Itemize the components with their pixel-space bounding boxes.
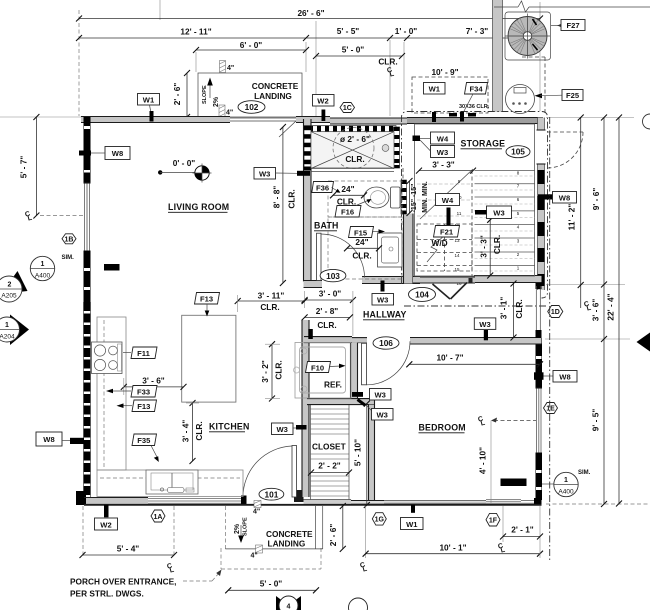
label W3 kitchen east xyxy=(272,423,307,435)
kitchen east wall xyxy=(302,320,309,497)
storage east door opening xyxy=(537,130,546,164)
extension line x160 top stub xyxy=(159,0,161,20)
svg-text:3' - 1": 3' - 1" xyxy=(499,297,509,320)
shower pan xyxy=(311,128,394,169)
left wall window xyxy=(84,183,91,251)
label W3 stairs right xyxy=(475,206,512,219)
svg-text:F27: F27 xyxy=(566,21,579,30)
svg-text:11' - 2": 11' - 2" xyxy=(567,204,577,231)
svg-text:1: 1 xyxy=(41,261,45,268)
rated line horizontal hallway xyxy=(404,305,546,307)
grid hex 1E xyxy=(544,403,558,414)
label F16 xyxy=(335,199,372,217)
stair break zigzag xyxy=(427,236,444,262)
door 102 leaf ajar xyxy=(279,121,296,137)
svg-text:4": 4" xyxy=(251,553,258,560)
svg-text:LANDING: LANDING xyxy=(254,91,292,101)
CL bottom center xyxy=(359,562,368,574)
4" hatch bottom landing lower xyxy=(251,545,263,560)
svg-text:106: 106 xyxy=(379,338,393,348)
dim 22'-4" xyxy=(606,115,623,507)
svg-text:0' - 0": 0' - 0" xyxy=(173,158,196,168)
svg-text:F11: F11 xyxy=(137,349,150,358)
storage east wall xyxy=(538,118,545,291)
bath clearance dashed boxes xyxy=(328,181,402,279)
section marker 1/A400 right xyxy=(542,470,591,497)
extension line x306 short xyxy=(305,42,307,72)
toilet xyxy=(364,187,400,208)
label W4 storage xyxy=(420,132,455,144)
stair riser dashed overlay xyxy=(475,176,536,271)
WD appliances dashed xyxy=(417,224,472,271)
sink cabinet xyxy=(146,470,198,494)
svg-text:SLOPE: SLOPE xyxy=(243,517,249,536)
svg-text:-15" -15": -15" -15" xyxy=(411,184,418,213)
svg-text:CLR.: CLR. xyxy=(194,421,204,440)
closet shelves xyxy=(311,409,350,496)
dim 2'-8" CLR hallway xyxy=(302,306,353,330)
svg-text:3' - 4": 3' - 4" xyxy=(181,420,191,443)
svg-text:LANDING: LANDING xyxy=(268,539,306,549)
label W3 storage xyxy=(413,136,455,158)
closet north wall xyxy=(307,399,375,405)
winder treads 9-11 dashed xyxy=(417,184,472,216)
svg-text:W1: W1 xyxy=(406,520,418,529)
right dashed y504 xyxy=(546,503,650,505)
label W3 bath left xyxy=(254,168,310,180)
bedroom south window xyxy=(486,500,521,504)
right ext line y339 xyxy=(545,338,630,340)
svg-text:2' - 1": 2' - 1" xyxy=(511,525,534,535)
svg-text:F10: F10 xyxy=(311,364,324,373)
svg-text:2' - 8": 2' - 8" xyxy=(316,306,339,316)
svg-text:3' - 3": 3' - 3" xyxy=(479,235,489,258)
svg-text:REF.: REF. xyxy=(324,380,342,390)
svg-text:CLOSET: CLOSET xyxy=(312,442,346,452)
extension line x390 xyxy=(389,40,391,116)
right ext line y117.5 xyxy=(546,117,634,119)
svg-text:F21: F21 xyxy=(440,228,454,237)
svg-text:F36: F36 xyxy=(316,184,329,193)
porch leader dashed xyxy=(183,570,222,582)
svg-text:1B: 1B xyxy=(65,236,74,243)
svg-text:W2: W2 xyxy=(317,97,328,106)
bottom wall thin segment 384-486 xyxy=(384,501,486,505)
CL 2'-1" xyxy=(497,543,506,555)
label F13 island xyxy=(195,293,220,317)
svg-text:W8: W8 xyxy=(43,435,54,444)
svg-text:CLR.: CLR. xyxy=(317,320,336,330)
bottom wall window kitchen xyxy=(148,498,241,505)
svg-text:W4: W4 xyxy=(437,135,449,144)
svg-text:W3: W3 xyxy=(437,148,448,157)
bottom wall post at 241 xyxy=(241,496,247,506)
top wall right of 102 xyxy=(296,117,330,123)
dim 24" CLR toilet xyxy=(330,184,367,207)
black tick near hallway west xyxy=(308,329,313,339)
slope arrow bottom xyxy=(234,517,249,543)
svg-text:6' - 0": 6' - 0" xyxy=(240,40,263,50)
svg-text:A204: A204 xyxy=(0,334,15,341)
dashed leader left xyxy=(40,215,83,217)
datum 0'-0" xyxy=(158,158,212,183)
dim 11'-2" xyxy=(567,115,584,309)
dim 24" CLR vanity xyxy=(344,237,382,261)
dim 4'-10" bedroom vertical xyxy=(478,418,537,505)
svg-text:A400: A400 xyxy=(35,273,51,280)
svg-text:CLR.: CLR. xyxy=(352,251,371,261)
svg-text:CLR.: CLR. xyxy=(378,57,397,67)
svg-text:W4: W4 xyxy=(442,196,454,205)
closet side lines xyxy=(310,405,312,500)
svg-text:HALLWAY: HALLWAY xyxy=(363,310,407,320)
svg-text:W1: W1 xyxy=(429,85,441,94)
bottom wall under closet xyxy=(304,500,352,505)
svg-text:W8: W8 xyxy=(559,373,570,382)
label W4 winder xyxy=(436,194,460,219)
shower north wall checkered xyxy=(309,126,396,132)
label W8 left wall xyxy=(36,432,84,446)
dim 26'-6" line xyxy=(79,18,540,20)
svg-text:2' - 6": 2' - 6" xyxy=(172,83,182,106)
dash-dot grid 1D vertical xyxy=(549,117,551,560)
svg-text:3' - 11": 3' - 11" xyxy=(258,291,285,301)
svg-text:W3: W3 xyxy=(377,296,388,305)
bottom wall corner post right xyxy=(534,498,542,506)
left counter xyxy=(97,317,126,470)
grid hex 1F xyxy=(486,513,500,526)
label W1 storage top xyxy=(424,83,446,123)
door 101 jamb post xyxy=(294,490,304,502)
elevation arrow right edge xyxy=(637,333,650,352)
dim 3'-1" CLR hallway vertical xyxy=(499,281,525,341)
label W8 upper left xyxy=(79,147,130,160)
svg-text:STORAGE: STORAGE xyxy=(461,139,506,149)
header bar living room xyxy=(104,264,120,271)
svg-text:22' - 4": 22' - 4" xyxy=(606,293,616,320)
svg-text:BATH: BATH xyxy=(314,221,339,231)
CL right xyxy=(583,301,592,313)
dim 3'-6" kitchen xyxy=(121,376,187,396)
svg-text:102: 102 xyxy=(245,102,259,112)
svg-text:F33: F33 xyxy=(137,388,150,397)
dim 5'-10" closet vertical xyxy=(353,401,370,508)
bottom wall window segment 351-384 xyxy=(351,501,384,505)
svg-text:SIM.: SIM. xyxy=(62,255,75,261)
door 103 swing xyxy=(321,234,365,278)
svg-text:W3: W3 xyxy=(259,170,270,179)
svg-text:CLR.: CLR. xyxy=(260,302,279,312)
label W1 bottom xyxy=(401,505,424,530)
svg-text:1F: 1F xyxy=(489,518,498,525)
svg-text:8' - 8": 8' - 8" xyxy=(272,186,282,209)
bottom exterior wall: corner post xyxy=(76,491,86,505)
dashed wall line x402 shower to toilet xyxy=(402,168,404,180)
svg-text:F13: F13 xyxy=(137,402,150,411)
shower east wall checkered xyxy=(394,127,400,168)
water heater F25 xyxy=(506,85,535,114)
bottom wall heavy lower edge xyxy=(84,504,542,506)
svg-text:1A: 1A xyxy=(154,514,163,521)
svg-text:W8: W8 xyxy=(559,194,570,203)
WD closet south wall xyxy=(413,277,475,283)
svg-text:1: 1 xyxy=(5,322,9,329)
extension line x316 xyxy=(315,21,317,116)
slope arrow top landing xyxy=(209,84,211,98)
bath/WD wall hatched xyxy=(401,180,407,214)
svg-text:24": 24" xyxy=(355,237,368,247)
upper cab dashed left xyxy=(103,320,105,468)
svg-text:4": 4" xyxy=(226,110,233,117)
svg-text:30X36 CLR.: 30X36 CLR. xyxy=(459,104,490,110)
oval 101 xyxy=(259,488,284,500)
svg-text:W3: W3 xyxy=(375,391,386,400)
svg-text:CONCRETE: CONCRETE xyxy=(252,81,299,91)
svg-text:1: 1 xyxy=(564,477,568,484)
extension line x196 short xyxy=(195,52,197,72)
bedroom east wall xyxy=(536,338,543,388)
stair up diagonal xyxy=(420,169,473,219)
svg-text:24": 24" xyxy=(341,184,354,194)
oval 104 xyxy=(409,287,436,301)
dim 3'-3" storage xyxy=(416,160,476,174)
bath north wall xyxy=(330,118,407,124)
svg-text:5' - 4": 5' - 4" xyxy=(117,544,140,554)
label F33 xyxy=(106,386,157,398)
svg-text:W3: W3 xyxy=(277,425,288,434)
room tag 102 xyxy=(238,101,265,114)
stair enclosure rated line (dash-dot rounded) xyxy=(402,112,548,299)
label W2 bottom xyxy=(95,505,118,530)
bath south wall left piece xyxy=(304,281,323,288)
dim 10'-1" xyxy=(363,543,543,557)
shower west wall checkered xyxy=(304,126,311,170)
svg-text:103: 103 xyxy=(326,271,340,281)
svg-text:F34: F34 xyxy=(469,85,483,94)
refrigerator xyxy=(294,343,352,399)
shower curb xyxy=(311,168,394,172)
dim 15" 15" MIN MIN xyxy=(407,178,430,216)
bottom counter xyxy=(97,470,243,497)
label W2 top xyxy=(313,95,335,122)
svg-text:PORCH OVER ENTRANCE,: PORCH OVER ENTRANCE, xyxy=(70,577,177,587)
label F36 xyxy=(312,182,341,193)
svg-text:4: 4 xyxy=(287,604,291,610)
svg-text:12' - 11": 12' - 11" xyxy=(180,27,211,37)
bath south wall right piece xyxy=(362,277,420,284)
chase wall band top right xyxy=(493,0,503,112)
section marker 2/A205 xyxy=(0,271,28,302)
svg-text:CLR.: CLR. xyxy=(345,154,364,164)
svg-text:5' - 5": 5' - 5" xyxy=(337,26,360,36)
label W8 right bottom xyxy=(534,371,577,383)
4" curb hatch top xyxy=(220,61,235,73)
top exterior wall left segment xyxy=(81,117,230,123)
svg-text:CLR.: CLR. xyxy=(287,189,297,208)
svg-text:W3: W3 xyxy=(493,209,504,218)
east wall segment at hallway xyxy=(536,283,542,338)
svg-text:26' - 6": 26' - 6" xyxy=(297,8,324,18)
svg-text:ø 2' - 6": ø 2' - 6" xyxy=(340,134,370,144)
svg-text:104: 104 xyxy=(415,290,429,300)
svg-text:4": 4" xyxy=(227,65,234,72)
dim 3'-0" hallway xyxy=(302,289,356,337)
svg-text:1G: 1G xyxy=(375,517,385,524)
label W3 fridge wall xyxy=(352,389,391,401)
living/bath wall xyxy=(304,119,312,282)
dim 8'-8" CLR vertical xyxy=(272,124,297,286)
marker circle bottom cut xyxy=(349,598,368,610)
marker diamond 4 bottom xyxy=(276,596,301,610)
concrete landing top outline xyxy=(198,73,302,117)
svg-text:5' - 7": 5' - 7" xyxy=(19,156,29,179)
svg-text:F25: F25 xyxy=(566,91,580,100)
dim 5'-7" xyxy=(19,114,40,219)
svg-text:CLR.: CLR. xyxy=(274,360,284,379)
svg-text:KITCHEN: KITCHEN xyxy=(209,422,250,432)
svg-text:SLOPE: SLOPE xyxy=(202,85,208,104)
4" hatch bottom landing upper xyxy=(253,501,261,516)
label F11 xyxy=(123,347,157,359)
label F27 xyxy=(557,23,564,28)
right ext line y284.5 xyxy=(546,284,625,286)
svg-text:CLR.: CLR. xyxy=(337,197,356,207)
svg-text:PER STRL. DWGS.: PER STRL. DWGS. xyxy=(70,589,144,599)
bedroom east window xyxy=(536,388,543,453)
bedroom east wall lower xyxy=(536,453,543,500)
svg-text:5' - 0": 5' - 0" xyxy=(260,579,283,589)
small black dashes top wall xyxy=(449,113,457,117)
svg-text:10' - 9": 10' - 9" xyxy=(431,67,458,77)
extension line x404 xyxy=(403,42,405,110)
label W3 hallway 104 xyxy=(474,318,496,340)
label W1 top xyxy=(138,94,160,122)
door 106 swing xyxy=(367,341,411,385)
svg-text:W1: W1 xyxy=(143,96,155,105)
bedroom north wall xyxy=(410,338,542,345)
door 101 leaf xyxy=(292,446,297,498)
jamb at 104 xyxy=(469,278,473,283)
tread numbers 1-8 xyxy=(517,171,520,271)
WD west wall xyxy=(404,214,414,284)
property line y7 with break xyxy=(494,6,518,8)
svg-text:W/D: W/D xyxy=(432,238,448,248)
section marker 1/A204 xyxy=(0,315,29,346)
left exterior wall upper xyxy=(84,117,91,183)
door 106 leaf xyxy=(362,343,367,385)
condenser pad F27 xyxy=(505,12,551,60)
header bar bedroom xyxy=(501,479,527,487)
extension line x540 top xyxy=(539,2,541,111)
dashed v x83 xyxy=(82,506,84,556)
stair south wall xyxy=(474,276,542,283)
dim 3'-2" CLR fridge xyxy=(260,341,284,401)
svg-text:F15: F15 xyxy=(354,229,368,238)
bedroom west wall xyxy=(369,399,375,500)
label F15 xyxy=(349,227,386,238)
label W3 hallway top xyxy=(372,281,394,306)
dim 2'-6" vertical at landing xyxy=(186,73,188,117)
oval 105 xyxy=(506,146,530,158)
grid line left horizontal xyxy=(0,116,83,118)
svg-text:F16: F16 xyxy=(341,208,354,217)
upper cab dashed bottom xyxy=(100,477,240,479)
dim 5'-4" xyxy=(80,544,178,559)
svg-text:W8: W8 xyxy=(112,149,123,158)
dashed v x174 xyxy=(173,506,175,556)
svg-text:14: 14 xyxy=(454,253,460,258)
svg-text:F35: F35 xyxy=(137,436,151,445)
svg-text:3' - 6": 3' - 6" xyxy=(591,299,601,322)
grid dashed vertical at x79 top xyxy=(78,10,80,116)
oval 103 xyxy=(320,269,346,281)
svg-text:LIVING ROOM: LIVING ROOM xyxy=(168,202,229,212)
section marker 1/A400 left xyxy=(30,255,74,281)
storage interior outline xyxy=(415,124,535,276)
svg-text:1C: 1C xyxy=(343,105,352,112)
svg-text:W3: W3 xyxy=(377,411,388,420)
label F25 xyxy=(535,93,543,98)
svg-text:MIN. MIN.: MIN. MIN. xyxy=(422,181,429,213)
bottom wall thin segment 521-534 xyxy=(521,501,534,504)
svg-text:1' - 0": 1' - 0" xyxy=(395,26,418,36)
svg-text:4": 4" xyxy=(253,509,260,516)
grid hex 1A xyxy=(151,510,165,522)
oval 106 xyxy=(373,337,399,349)
svg-text:A205: A205 xyxy=(1,293,17,300)
4" curb hatch bottom xyxy=(219,105,233,117)
svg-text:A400: A400 xyxy=(558,489,574,496)
svg-text:105: 105 xyxy=(511,147,525,157)
svg-text:3' - 2": 3' - 2" xyxy=(260,360,270,383)
grid hex 1D xyxy=(548,306,563,318)
svg-text:10' - 7": 10' - 7" xyxy=(436,353,463,363)
island xyxy=(182,315,236,402)
bottom wall gray segment xyxy=(84,498,148,505)
dim 3'-11" CLR kitchen xyxy=(235,291,308,313)
dim 6'-0" xyxy=(196,49,306,51)
door 101 swing xyxy=(243,446,292,497)
label W8 right top xyxy=(538,192,577,204)
CL bedroom xyxy=(477,416,486,428)
dim 9'-6" / 3'-6" / 9'-5" chain xyxy=(591,115,608,508)
svg-text:4' - 10": 4' - 10" xyxy=(478,447,488,474)
dim 12'-11" / 5'-5" / 1'-0" / 7'-3" line xyxy=(79,37,540,39)
CL left xyxy=(24,211,33,223)
dim 3'-4" CLR kitchen vertical xyxy=(181,400,205,464)
door 103 leaf xyxy=(317,233,322,280)
svg-text:2: 2 xyxy=(8,282,12,289)
dim 5'-0" CLR xyxy=(316,55,402,57)
door 104 double V xyxy=(433,283,468,300)
dim 10'-7" bedroom xyxy=(406,353,543,368)
svg-text:W3: W3 xyxy=(479,320,490,329)
winder numbers xyxy=(454,179,462,286)
label F13 lower xyxy=(117,400,157,412)
dim 5'-0" porch xyxy=(225,579,319,594)
svg-text:1D: 1D xyxy=(551,309,560,316)
door 102 threshold xyxy=(230,118,296,121)
CL at 5'-0" xyxy=(386,67,395,79)
v-line x365.6 bottom xyxy=(365,506,367,558)
grid hex 1C xyxy=(340,103,355,113)
svg-text:2' - 2": 2' - 2" xyxy=(318,461,341,471)
svg-text:2%: 2% xyxy=(234,523,241,534)
landing bottom outline xyxy=(225,506,322,549)
CL bottom left xyxy=(166,563,175,575)
hallway south wall xyxy=(304,337,367,343)
svg-text:3' - 3": 3' - 3" xyxy=(432,160,455,170)
